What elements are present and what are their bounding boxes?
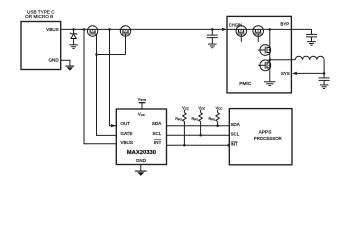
svg-text:APPS: APPS [259,129,272,135]
ground (PMIC internal) [264,82,276,86]
resistor R1 (pull-up to INT) [175,105,189,147]
svg-text:SCL: SCL [231,132,240,137]
wire INT line [167,144,230,146]
part label APPS PROCESSOR [254,129,282,141]
svg-text:VCC: VCC [198,105,205,111]
transistor Q1 (external FET) [87,26,97,36]
ground (C3) [320,85,329,89]
transistor Q6 (low-side) [258,60,270,71]
node VBUS sense tap [83,28,86,31]
ground (C1) [208,44,217,48]
ground (zener) [69,45,78,49]
svg-text:SCL: SCL [152,131,161,136]
wire mid node to OUT pin [110,29,117,125]
svg-text:VCC: VCC [138,111,146,117]
wire LX out to inductor [270,59,296,61]
svg-text:VSYS: VSYS [138,96,147,102]
transistor Q4 (PMIC internal) [253,26,264,42]
svg-text:GND: GND [136,158,147,163]
node LX [269,59,272,62]
svg-text:SDA: SDA [152,121,162,126]
pin label INT (processor) [231,141,238,146]
svg-text:PMIC: PMIC [239,81,252,87]
node gate junction [95,53,98,56]
arrow into CHGIN pin [222,28,227,31]
wire Q2 gate lead [125,34,127,55]
wire low-side to ground [269,71,271,82]
wire gate bus [97,54,126,56]
svg-text:BYP: BYP [280,22,289,27]
resistor R2 (pull-up to SCL) [191,105,205,137]
arrow into OUT pin [111,124,116,127]
wire Q1 gate lead [96,34,98,55]
op-amp U1 MAX20330 box [116,109,166,165]
capacitor C3 (SYS output cap) [319,78,330,85]
node INT at processor pin [227,144,230,147]
wire inductor down to cap [323,60,325,78]
wire MAX20330 GND to ground [140,165,142,171]
svg-text:PROCESSOR: PROCESSOR [254,136,282,141]
svg-text:SDA: SDA [231,122,240,127]
svg-text:RPU: RPU [208,117,215,122]
power rail VSYS [138,96,147,109]
svg-text:INT: INT [154,140,162,145]
node SYS junction [323,72,326,75]
wire VBUS main rail [61,28,223,30]
processor box [229,109,292,165]
svg-text:INT: INT [231,142,238,147]
resistor R3 (pull-up to SDA) [208,105,222,127]
capacitor C2 (BYP cap) [306,34,317,41]
USB connector title [25,10,55,20]
svg-text:GND: GND [48,58,59,63]
wire SCL line [167,134,230,136]
op-amp U2 PMIC box [227,16,291,93]
pin label INT (MAX20330) [154,140,162,145]
wire USB GND to ground [61,60,70,65]
ground (USB GND chassis) [66,66,75,71]
arrow into SYS pin [292,72,297,75]
svg-text:VBUS: VBUS [46,27,59,32]
wire SDA line [167,125,230,127]
wire BYP to cap [291,29,311,34]
svg-text:OUT: OUT [120,121,130,126]
svg-text:RPU: RPU [191,117,198,122]
svg-text:MAX20330: MAX20330 [127,150,157,156]
node CHGIN cap tap [211,28,214,31]
inductor L1 [295,56,324,60]
transistor Q2 (external FET) [120,26,130,36]
transistor Q3 (PMIC internal) [236,26,247,42]
ground (C2) [307,42,316,46]
wire SYS feedback [297,72,325,74]
node buck branch [269,28,272,31]
svg-text:RPU: RPU [175,117,182,122]
wire VBUS sense to VBUS pin [84,29,116,143]
svg-text:CHGIN: CHGIN [229,23,242,28]
wire gate to GATE pin [97,55,117,136]
svg-text:GATE: GATE [120,131,132,136]
zener diode D1 [70,29,77,44]
wire internal CHGIN to BYP [227,28,291,30]
USB connector box [21,22,61,70]
svg-text:SYS: SYS [281,71,290,76]
svg-text:VCC: VCC [182,105,189,111]
ground (MAX20330 chassis) [135,171,147,176]
svg-text:OR MICRO B: OR MICRO B [25,14,53,19]
wire buck branch down [269,29,271,70]
node zener tap [72,28,75,31]
svg-text:VBUS: VBUS [120,140,133,145]
capacitor C1 (CHGIN input cap) [207,29,218,44]
transistor Q5 (high-side) [258,45,270,56]
svg-text:VCC: VCC [215,105,222,111]
node OUT tap [108,28,111,31]
